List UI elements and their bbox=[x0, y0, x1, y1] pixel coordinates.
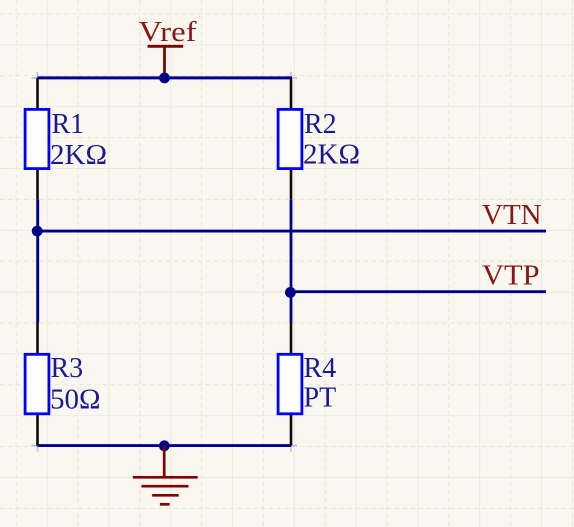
ground symbol bbox=[133, 446, 198, 505]
pin hotspot cross bottom-right bbox=[285, 440, 297, 452]
wire right vertical (R2 bottom to R4 top) bbox=[290, 200, 293, 323]
wire bottom (ground net) bbox=[38, 444, 292, 447]
svg-text:50Ω: 50Ω bbox=[50, 384, 101, 415]
junction dot Vref/top wire bbox=[159, 73, 170, 84]
svg-text:Vref: Vref bbox=[139, 16, 197, 48]
pin hotspot cross top-left bbox=[32, 72, 44, 84]
power port Vref bbox=[139, 16, 197, 78]
svg-text:R3: R3 bbox=[51, 353, 84, 384]
wire VTN horizontal bbox=[38, 230, 547, 233]
junction dot VTP bbox=[285, 287, 296, 298]
pin hotspot cross top-right bbox=[285, 72, 297, 84]
svg-text:R2: R2 bbox=[304, 109, 337, 140]
wire top (Vref net) bbox=[38, 76, 293, 79]
resistor R3 bbox=[25, 323, 49, 446]
junction dot VTN left bbox=[32, 226, 43, 237]
wire VTP horizontal bbox=[291, 290, 546, 293]
svg-text:2KΩ: 2KΩ bbox=[50, 140, 107, 171]
resistor R4 bbox=[278, 323, 302, 446]
svg-text:PT: PT bbox=[304, 383, 337, 414]
svg-text:R4: R4 bbox=[304, 353, 337, 384]
svg-text:VTP: VTP bbox=[482, 260, 540, 292]
svg-text:VTN: VTN bbox=[482, 199, 542, 231]
resistor R2 bbox=[278, 78, 302, 200]
junction dot ground bbox=[159, 440, 170, 451]
wire left vertical (R1 bottom to R3 top, VTN node) bbox=[36, 200, 39, 323]
svg-text:R1: R1 bbox=[52, 109, 85, 140]
resistor R1 bbox=[25, 78, 49, 200]
pin hotspot cross bottom-left bbox=[32, 440, 44, 452]
svg-text:2KΩ: 2KΩ bbox=[303, 140, 360, 171]
